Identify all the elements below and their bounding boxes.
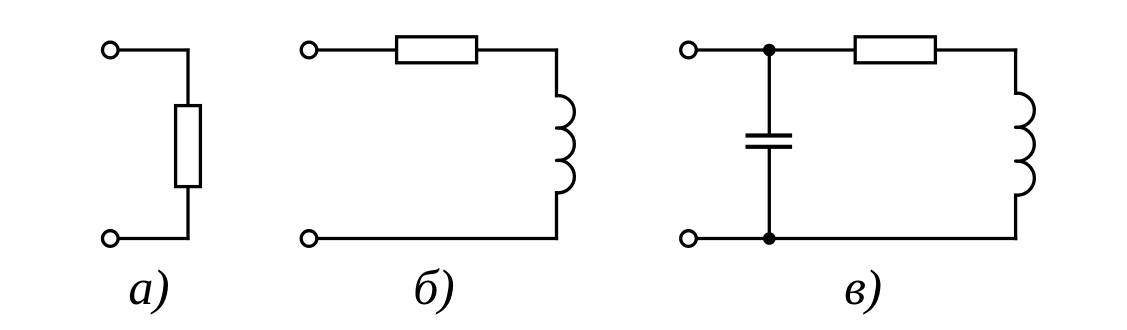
wire a bottom xyxy=(120,237,189,240)
wire v right upper xyxy=(1014,50,1017,93)
inductor (circuit b, 3 arcs) xyxy=(557,96,575,193)
terminal b top xyxy=(301,42,317,58)
terminal a bottom xyxy=(103,231,119,247)
wire b top-right xyxy=(475,48,557,51)
wire b bottom xyxy=(318,237,556,240)
wire v top-left xyxy=(698,48,857,51)
inductor (circuit v, 3 arcs) xyxy=(1016,93,1035,195)
resistor (circuit b, horizontal) xyxy=(397,37,477,63)
wire v right lower xyxy=(1014,195,1017,238)
circuit a: series resistor two-terminal network xyxy=(103,42,201,246)
wire b top-left xyxy=(318,48,398,51)
circuit v: parallel C with series R-L xyxy=(681,37,1035,247)
junction node bottom xyxy=(763,232,776,245)
wire b right upper xyxy=(555,50,558,96)
wire a right vertical xyxy=(186,50,189,239)
wire v top-right xyxy=(934,48,1016,51)
wire b right lower xyxy=(555,193,558,239)
circuit b: series R-L two-terminal network xyxy=(301,37,574,247)
wire v bottom xyxy=(698,237,1016,240)
junction node top xyxy=(763,44,776,57)
svg-text:в): в) xyxy=(844,259,881,315)
svg-text:б): б) xyxy=(413,259,454,315)
resistor (circuit a, vertical) xyxy=(176,106,201,187)
terminal v bottom xyxy=(681,231,697,247)
capacitor (circuit v) xyxy=(746,136,793,147)
terminal v top xyxy=(681,42,697,58)
terminal b bottom xyxy=(301,231,317,247)
wire a top xyxy=(120,48,189,51)
wire v capacitor branch lower xyxy=(768,148,771,238)
wire v capacitor branch upper xyxy=(768,50,771,134)
svg-text:а): а) xyxy=(128,259,169,315)
resistor (circuit v, horizontal) xyxy=(855,37,935,63)
terminal a top xyxy=(103,42,119,58)
